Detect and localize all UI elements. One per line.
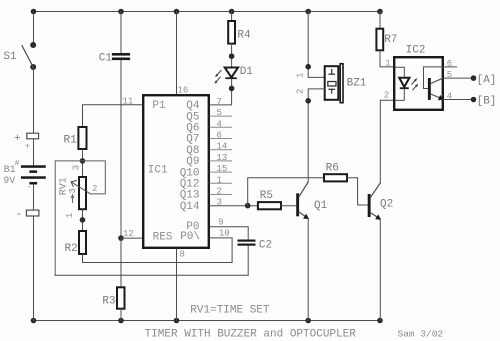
wire Q2 collector to IC2 pin 2 [380, 100, 393, 183]
wire pin 8 to bottom rail [176, 249, 178, 321]
battery plus terminal connector [27, 133, 39, 139]
svg-text:P0\: P0\ [180, 231, 200, 243]
svg-text:1: 1 [385, 59, 390, 69]
svg-text:13: 13 [217, 153, 228, 163]
resistor R4 [228, 21, 235, 44]
wire C1 down to RES node [120, 60, 122, 238]
svg-text:Q12: Q12 [180, 179, 200, 191]
wire pin 16 from top rail [176, 12, 178, 95]
svg-text:R5: R5 [260, 190, 273, 202]
switch S1 [22, 42, 36, 70]
wire pin 11 to R1 [83, 105, 143, 127]
node terminal A [471, 75, 477, 81]
wire R6 to Q2 base [347, 178, 368, 205]
wire top supply rail [34, 11, 381, 13]
node buzzer pin 2 [305, 98, 311, 104]
node R4-D1 [229, 53, 235, 59]
wire RES node to R3 [120, 238, 122, 287]
svg-text:6: 6 [217, 131, 222, 141]
svg-text:Q8: Q8 [186, 145, 199, 157]
battery minus terminal connector [26, 210, 39, 216]
svg-text:Sam 3/02: Sam 3/02 [398, 328, 444, 339]
IC2 internal phototransistor [424, 67, 444, 100]
wire RV1 to R2 [82, 209, 84, 231]
svg-text:14: 14 [217, 142, 228, 152]
svg-text:6: 6 [447, 59, 452, 69]
svg-text:R1: R1 [64, 134, 78, 146]
svg-text:1: 1 [296, 73, 306, 78]
svg-text:-: - [27, 183, 32, 192]
op-amp IC1 box [143, 95, 209, 248]
svg-text:5: 5 [217, 108, 222, 118]
svg-text:1: 1 [217, 175, 222, 185]
transistor Q2 [368, 183, 381, 220]
svg-text:IC1: IC1 [148, 164, 168, 176]
svg-text:Q13: Q13 [180, 190, 200, 202]
IC1 right side pin names [180, 100, 200, 243]
svg-text:-: - [16, 209, 23, 221]
svg-text:R3: R3 [102, 295, 115, 307]
wire buzzer pin 2 to Q1 collector [308, 89, 325, 182]
svg-text:3: 3 [68, 188, 78, 193]
LED D1 [214, 68, 238, 84]
node bottom rail junctions [31, 318, 383, 324]
svg-text:S1: S1 [3, 51, 17, 63]
wire bottom ground rail [34, 320, 381, 322]
potentiometer RV1 wiper arrow [71, 181, 91, 194]
capacitor C1 [112, 53, 130, 60]
svg-text:4: 4 [447, 92, 452, 102]
svg-text:C1: C1 [99, 53, 113, 65]
svg-text:C2: C2 [259, 239, 272, 251]
wire connector to battery [33, 139, 35, 167]
wire pin 3 to R5 [210, 205, 258, 207]
wire top rail to C1 [120, 12, 122, 54]
wire IC2 pin 4 to terminal B [443, 99, 474, 101]
node RV1 top [80, 158, 86, 164]
svg-text:Q6: Q6 [186, 123, 199, 135]
wire top rail to R7 [379, 12, 381, 29]
svg-text:Q1: Q1 [314, 200, 328, 212]
svg-text:R4: R4 [237, 29, 251, 41]
node RES junction [118, 235, 124, 241]
svg-text:+: + [25, 142, 30, 151]
svg-text:9V: 9V [3, 176, 15, 187]
wire R5 to Q1 base [281, 205, 296, 207]
potentiometer RV1 body [79, 177, 86, 209]
optocoupler IC2 box [394, 57, 443, 110]
svg-text:[A]: [A] [477, 74, 497, 86]
svg-text:P1: P1 [152, 100, 166, 112]
node Q14 junction [245, 203, 251, 209]
wire connector to bottom rail [33, 216, 35, 321]
svg-text:5: 5 [447, 70, 452, 80]
svg-text:[B]: [B] [477, 96, 497, 108]
wire R4 to D1 [231, 44, 233, 68]
svg-text:RV1=TIME SET: RV1=TIME SET [190, 304, 270, 316]
wire top rail to buzzer pin 1 [308, 12, 325, 78]
capacitor C2 [238, 240, 256, 246]
svg-text:Q4: Q4 [186, 100, 200, 112]
svg-text:Q7: Q7 [186, 134, 199, 146]
svg-text:IC2: IC2 [406, 45, 426, 57]
buzzer BZ1 [325, 64, 343, 103]
resistor R6 [324, 174, 347, 181]
wire C2 top to pin 9 [210, 227, 248, 240]
svg-text:TIMER WITH BUZZER and OPTOCUPL: TIMER WITH BUZZER and OPTOCUPLER [145, 329, 357, 341]
wire IC2 pin 5 to terminal A [443, 77, 474, 79]
svg-text:12: 12 [123, 229, 134, 239]
wire R2 to P0\ pin 10 [83, 238, 233, 263]
svg-text:BZ1: BZ1 [347, 78, 367, 90]
wire battery to minus connector [33, 184, 35, 210]
svg-text:4: 4 [217, 119, 222, 129]
resistor R7 [376, 29, 383, 51]
node RV1 bottom [80, 217, 86, 223]
IC2 internal LED [396, 67, 419, 100]
node D1 bottom [229, 86, 235, 92]
svg-text:2: 2 [217, 187, 222, 197]
svg-text:Q14: Q14 [180, 201, 200, 213]
svg-text:2: 2 [296, 89, 306, 94]
wire Q14 node up to R6 [248, 178, 324, 206]
wire IC2 pin 6 stub [443, 66, 457, 68]
svg-text:Q2: Q2 [380, 199, 393, 211]
wire R7 to IC2 pin 1 [380, 50, 393, 67]
svg-text:#: # [15, 159, 20, 168]
wire switch to battery connector [33, 67, 35, 133]
svg-text:10: 10 [219, 229, 230, 239]
wire top rail to R4 [231, 12, 233, 22]
svg-text:R6: R6 [326, 163, 339, 175]
svg-text:15: 15 [217, 164, 228, 174]
resistor R3 [117, 287, 125, 308]
battery B1 [21, 165, 46, 184]
IC1 right pin numbers [217, 97, 230, 239]
resistor R1 [78, 127, 86, 149]
svg-text:8: 8 [180, 250, 185, 260]
svg-text:Q5: Q5 [186, 111, 199, 123]
svg-text:Q9: Q9 [186, 156, 199, 168]
svg-text:Q10: Q10 [180, 167, 200, 179]
svg-text:D1: D1 [240, 66, 254, 78]
IC1 unconnected pin stubs [210, 116, 232, 194]
node buzzer pin 1 [305, 64, 311, 70]
wire RES pin 12 [121, 237, 142, 239]
wire R3 to bottom rail [120, 309, 122, 321]
svg-text:3: 3 [72, 165, 82, 170]
wire RV1 wiper loop [55, 161, 105, 275]
svg-text:R7: R7 [384, 34, 397, 46]
svg-text:2: 2 [92, 184, 97, 194]
resistor R5 [258, 202, 281, 209]
wire left rail above switch [33, 12, 35, 46]
node terminal B [471, 97, 477, 103]
wire Q1 emitter to ground [307, 219, 309, 321]
wire Q2 emitter to ground [379, 219, 381, 320]
svg-text:RES: RES [153, 231, 173, 243]
resistor R2 [79, 231, 86, 254]
wire D1 to pin 7 [210, 79, 232, 105]
svg-text:1: 1 [65, 213, 75, 218]
svg-text:+: + [14, 133, 21, 145]
node top rail junctions [31, 9, 383, 15]
svg-text:2: 2 [384, 90, 389, 100]
wire R1 to RV1 [82, 149, 84, 177]
wire wiper line B to C2 bottom and P0 pin 9 [55, 246, 248, 276]
svg-text:R2: R2 [65, 243, 78, 255]
transistor Q1 [296, 182, 309, 219]
